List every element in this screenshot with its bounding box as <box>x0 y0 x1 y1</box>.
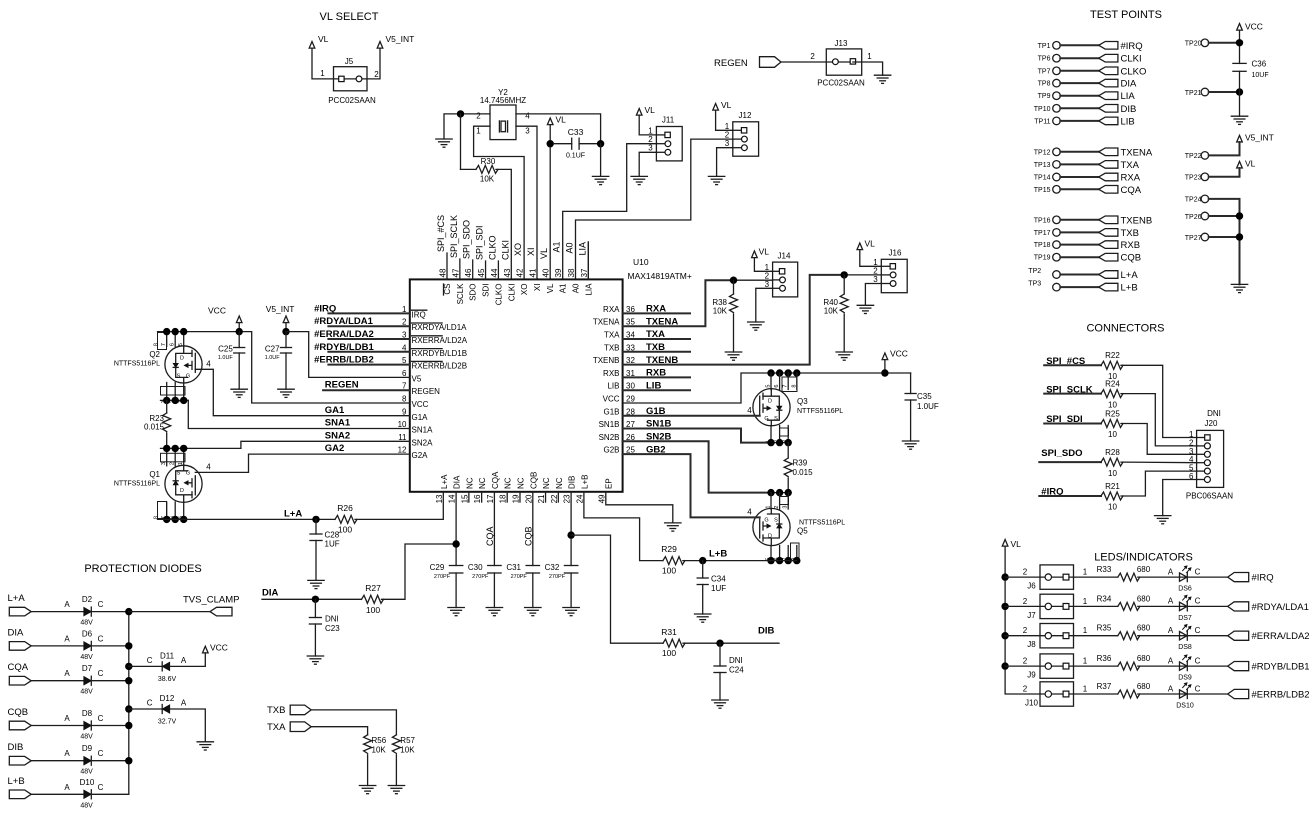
svg-text:11: 11 <box>398 433 407 442</box>
svg-text:680: 680 <box>1137 624 1151 633</box>
op-amp U10 MAX14819ATM+ body <box>410 279 623 491</box>
svg-text:A1: A1 <box>552 241 562 252</box>
resistor R39 <box>787 443 789 458</box>
svg-text:4: 4 <box>747 406 752 415</box>
power VL (J14) <box>752 251 758 258</box>
node Q5 top junctions <box>767 489 774 496</box>
Q2 drain tab pins 8,7,6,5 <box>158 333 167 350</box>
svg-text:CQB: CQB <box>523 526 533 546</box>
svg-text:SDI: SDI <box>482 284 491 297</box>
svg-text:G: G <box>186 471 190 477</box>
svg-text:3: 3 <box>648 144 653 153</box>
svg-text:C31: C31 <box>506 563 521 572</box>
svg-text:TVS_CLAMP: TVS_CLAMP <box>183 595 240 606</box>
svg-text:LIA: LIA <box>577 242 587 256</box>
power VL (C33) <box>547 118 553 125</box>
net TXB flag (TP17) <box>1099 229 1118 237</box>
svg-text:TP10: TP10 <box>1034 106 1051 113</box>
resistor R23 <box>166 400 168 413</box>
wire J12 pin2 to A0 pin38 <box>576 139 733 279</box>
svg-text:VCC: VCC <box>412 400 429 409</box>
svg-text:3: 3 <box>765 280 770 289</box>
svg-text:NC: NC <box>555 477 564 489</box>
svg-text:R36: R36 <box>1097 654 1112 663</box>
svg-text:39: 39 <box>554 268 563 277</box>
svg-text:TXENA: TXENA <box>593 318 620 327</box>
wire R25 to J20 pin3 <box>1121 424 1197 455</box>
resistor R40 <box>843 275 845 294</box>
svg-text:A0: A0 <box>565 242 575 253</box>
wire J6 to R33 <box>1074 576 1118 578</box>
node Q1 source junctions <box>163 445 170 452</box>
wire U10 pin 44 stub <box>497 261 499 279</box>
node pin14-C29 junction <box>452 540 459 547</box>
wire VL to J12 pin1 <box>716 110 733 130</box>
svg-text:S: S <box>774 518 778 524</box>
wire TP15 to flag <box>1060 188 1098 190</box>
svg-text:SN2B: SN2B <box>599 433 620 442</box>
wire C31 to ground <box>532 573 534 608</box>
wire U10 pin 47 stub <box>459 259 461 279</box>
wire pin4 stub <box>328 351 409 353</box>
svg-text:DIA: DIA <box>453 475 462 489</box>
wire U10 pin 46 stub <box>472 260 474 279</box>
svg-text:38.6V: 38.6V <box>158 676 177 683</box>
power VCC (C35) <box>882 353 888 360</box>
node TXENA-R38 <box>730 277 737 284</box>
svg-text:CQA: CQA <box>485 526 495 546</box>
svg-text:DNI: DNI <box>1207 409 1221 418</box>
svg-text:3: 3 <box>725 139 730 148</box>
wire TP1 to flag <box>1060 44 1098 46</box>
svg-text:TXA: TXA <box>604 331 620 340</box>
wire pin23 DIB node to R31 <box>571 535 663 643</box>
svg-text:TXENB: TXENB <box>593 356 620 365</box>
svg-text:TP11: TP11 <box>1034 118 1050 125</box>
svg-text:48V: 48V <box>80 620 93 627</box>
wire rail to J9 <box>1005 665 1040 667</box>
svg-text:SN1B: SN1B <box>599 420 620 429</box>
ground TP24/26/27 <box>1231 283 1247 285</box>
svg-text:VCC: VCC <box>1245 22 1263 32</box>
svg-text:DIB: DIB <box>1121 104 1137 115</box>
svg-text:680: 680 <box>1137 654 1151 663</box>
svg-text:A: A <box>64 783 70 792</box>
wire VL to pin40 VL <box>549 125 551 280</box>
svg-text:17: 17 <box>486 494 495 503</box>
resistor R57 <box>392 735 400 754</box>
svg-text:XI: XI <box>533 284 542 292</box>
ground C29 <box>448 607 464 609</box>
svg-text:J20: J20 <box>1205 419 1218 428</box>
node crystal-gnd junction <box>457 110 464 117</box>
wire R37 to DS10 <box>1138 693 1187 695</box>
svg-text:CQA: CQA <box>491 471 500 489</box>
svg-text:VL: VL <box>865 239 876 249</box>
svg-text:J12: J12 <box>739 111 752 120</box>
capacitor C32 <box>564 565 577 567</box>
wire U10 pin24 L+B to R29 <box>584 492 663 561</box>
node Q3 source junctions <box>767 439 774 446</box>
wire U10 pin23 DIB to C32 <box>570 492 572 566</box>
wire C28 to ground <box>315 541 317 581</box>
svg-text:C30: C30 <box>468 563 483 572</box>
svg-text:C: C <box>1195 597 1201 606</box>
power VL (TP23) <box>1237 161 1243 168</box>
svg-text:270PF: 270PF <box>511 574 528 580</box>
wire V5_INT to U10 pin6 <box>286 332 410 378</box>
svg-text:CQB: CQB <box>8 707 29 718</box>
svg-text:6: 6 <box>774 385 780 388</box>
svg-text:5: 5 <box>766 385 772 388</box>
svg-text:1UF: 1UF <box>711 584 726 593</box>
svg-text:TP23: TP23 <box>1185 175 1202 182</box>
svg-text:L+A: L+A <box>284 508 302 519</box>
svg-text:GA2: GA2 <box>325 443 345 454</box>
svg-text:C: C <box>98 634 104 643</box>
capacitor C30 <box>488 565 501 567</box>
svg-text:C36: C36 <box>1252 60 1267 69</box>
ground J12 <box>708 175 724 177</box>
wire VL to J14 pin1 <box>754 258 772 272</box>
wire U10 pin29 VCC to rail <box>623 373 911 403</box>
wire rail to J7 <box>1005 605 1040 607</box>
svg-text:A: A <box>64 634 70 643</box>
capacitor C31 <box>526 565 539 567</box>
wire L+A to D2 <box>31 611 84 613</box>
svg-text:CLKI: CLKI <box>507 284 516 302</box>
wire J14 pin3 to ground <box>756 288 773 322</box>
net #ERRB/LDB2 flag <box>1228 689 1249 698</box>
svg-text:#ERRA/LDA2: #ERRA/LDA2 <box>1252 631 1309 642</box>
svg-text:10K: 10K <box>400 746 415 755</box>
svg-text:REGEN: REGEN <box>412 387 441 396</box>
svg-text:J13: J13 <box>835 39 848 48</box>
svg-text:CQB: CQB <box>529 472 538 489</box>
svg-text:LIA: LIA <box>584 283 593 296</box>
svg-text:TP9: TP9 <box>1038 93 1051 100</box>
svg-text:L+A: L+A <box>8 593 26 604</box>
ground crystal left <box>436 138 452 140</box>
svg-text:C: C <box>98 749 104 758</box>
wire DS10 to flag <box>1187 693 1228 695</box>
resistor R38 <box>733 280 735 294</box>
svg-text:V5_INT: V5_INT <box>386 34 415 44</box>
svg-text:J7: J7 <box>1027 611 1036 620</box>
wire pin33 stub <box>623 351 690 353</box>
wire U10 pin 19 NC stub <box>519 492 521 502</box>
wire C35 to ground <box>910 400 912 441</box>
svg-text:10: 10 <box>1108 503 1117 512</box>
svg-text:TP21: TP21 <box>1185 90 1202 97</box>
svg-text:NTTFS5116PL: NTTFS5116PL <box>114 481 160 488</box>
node TP21 junction <box>1236 88 1243 95</box>
svg-text:IRQ: IRQ <box>412 310 426 319</box>
svg-text:270PF: 270PF <box>434 574 451 580</box>
svg-text:10: 10 <box>1108 430 1117 439</box>
svg-text:270PF: 270PF <box>549 574 566 580</box>
svg-text:R24: R24 <box>1105 380 1120 389</box>
svg-text:D: D <box>180 356 184 362</box>
svg-text:XI: XI <box>526 247 536 256</box>
svg-text:R39: R39 <box>793 459 808 468</box>
wire TP17 to flag <box>1060 231 1098 233</box>
svg-text:49: 49 <box>597 494 606 503</box>
node TP20 junction <box>1236 39 1243 46</box>
svg-text:Q1: Q1 <box>149 470 160 479</box>
wire D12 to ground <box>170 709 206 742</box>
svg-text:8: 8 <box>402 395 407 404</box>
svg-text:S: S <box>177 471 181 477</box>
svg-text:21: 21 <box>537 494 546 503</box>
svg-text:100: 100 <box>338 525 352 535</box>
wire GA2: Q1 gate to U10 pin12 <box>195 454 409 472</box>
svg-text:DIA: DIA <box>1121 79 1138 90</box>
svg-text:#IRQ: #IRQ <box>1121 41 1143 52</box>
svg-text:C25: C25 <box>218 345 233 354</box>
svg-text:6: 6 <box>402 369 407 378</box>
ground C31 <box>525 607 541 609</box>
svg-text:3: 3 <box>873 275 878 284</box>
wire U10 pin 22 NC stub <box>557 492 559 502</box>
svg-text:10: 10 <box>398 420 407 429</box>
svg-text:A: A <box>1168 597 1174 606</box>
svg-text:1: 1 <box>867 52 872 61</box>
svg-text:L+A: L+A <box>1121 270 1139 281</box>
svg-text:#IRQ: #IRQ <box>1252 573 1274 584</box>
svg-text:L+B: L+B <box>8 776 25 787</box>
svg-text:20: 20 <box>524 494 533 503</box>
svg-text:R29: R29 <box>661 544 677 554</box>
svg-text:1: 1 <box>320 69 325 78</box>
net #RDYA/LDA1 flag <box>1228 602 1249 611</box>
wire R34 to DS7 <box>1138 605 1187 607</box>
node VL-C33 junction <box>547 140 554 147</box>
svg-text:37: 37 <box>580 268 589 277</box>
wire R29 to Q5 drain rail <box>683 560 797 562</box>
ground J14 <box>748 321 764 323</box>
wire U10 pin17 CQA to C30 <box>493 492 495 566</box>
svg-text:680: 680 <box>1137 565 1151 574</box>
svg-text:SPI_SCLK: SPI_SCLK <box>449 215 459 258</box>
svg-text:VL: VL <box>1011 539 1022 549</box>
svg-text:6: 6 <box>170 343 176 346</box>
svg-text:R34: R34 <box>1097 594 1112 603</box>
svg-text:CLKI: CLKI <box>1121 54 1142 65</box>
svg-text:TP18: TP18 <box>1034 242 1051 249</box>
wire R28 to J20 pin4 <box>1121 461 1197 464</box>
wire #IRQ to R21 <box>1039 495 1101 497</box>
svg-text:C23: C23 <box>325 624 340 633</box>
svg-text:100: 100 <box>662 648 676 658</box>
svg-text:0.1UF: 0.1UF <box>566 153 585 160</box>
svg-text:4: 4 <box>525 112 530 121</box>
power V5_INT (J5) <box>377 42 383 49</box>
wire pin5 stub <box>328 364 409 366</box>
svg-text:RXERRA/LD2A: RXERRA/LD2A <box>412 336 468 345</box>
svg-text:2: 2 <box>810 52 815 61</box>
capacitor C28 <box>315 519 317 534</box>
svg-text:1: 1 <box>476 127 481 136</box>
wire U10 pin 16 NC stub <box>481 492 483 502</box>
wire SNA2 to U10 pin11 <box>241 441 410 448</box>
wire U10 pin 45 stub <box>485 261 487 279</box>
svg-text:1: 1 <box>1083 657 1088 666</box>
svg-text:LIA: LIA <box>1121 91 1136 102</box>
wire TP24 down <box>1209 199 1240 285</box>
net #IRQ flag (TP1) <box>1099 42 1118 50</box>
wire DS6 to flag <box>1187 576 1228 578</box>
svg-text:DS8: DS8 <box>1178 644 1192 651</box>
svg-text:DIA: DIA <box>8 627 25 638</box>
wire TP2 to flag <box>1060 274 1098 276</box>
svg-text:NC: NC <box>516 477 525 489</box>
power VL (J11) <box>636 109 642 116</box>
capacitor C34 <box>702 561 704 578</box>
svg-text:SN2A: SN2A <box>412 438 434 447</box>
svg-text:13: 13 <box>435 494 444 503</box>
wire VCC stem <box>238 323 240 332</box>
svg-text:DIA: DIA <box>262 588 279 599</box>
svg-text:14.7456MHZ: 14.7456MHZ <box>480 96 526 105</box>
node VCC-C35 <box>881 369 888 376</box>
svg-text:DS10: DS10 <box>1176 703 1194 710</box>
resistor R56 <box>364 735 372 754</box>
net CLKI flag (TP6) <box>1099 54 1118 62</box>
power VL (J5) <box>309 42 315 49</box>
svg-text:J16: J16 <box>889 249 902 258</box>
ground TP21 <box>1231 115 1247 117</box>
wire VCC rail to U10 pin8 <box>158 332 410 403</box>
node C33 right junction <box>597 140 604 147</box>
Q1 drain tab pins 8,7,6,5 <box>158 502 167 519</box>
power VL (J12) <box>713 104 719 111</box>
ground C27 <box>278 388 294 390</box>
node L+B junction <box>699 557 706 564</box>
wire DS8 to flag <box>1187 635 1228 637</box>
wire TP16 to flag <box>1060 219 1098 221</box>
wire TXENB to J16 pin2 <box>623 275 845 365</box>
Q3 source tab pins 1,2,3 <box>780 428 789 436</box>
svg-text:RXERRB/LD2B: RXERRB/LD2B <box>412 362 468 371</box>
svg-text:C: C <box>98 600 104 609</box>
svg-text:VL: VL <box>721 100 732 110</box>
svg-text:D2: D2 <box>82 595 93 604</box>
wire GB2 to Q5 gate <box>623 454 760 517</box>
node Q3 drain junctions <box>767 369 774 376</box>
wire DIA <box>262 598 362 600</box>
svg-text:XO: XO <box>513 243 523 256</box>
wire TP21 to node <box>1209 91 1240 93</box>
svg-text:7: 7 <box>161 343 167 346</box>
svg-text:TP12: TP12 <box>1034 149 1051 156</box>
svg-text:C: C <box>98 714 104 723</box>
ground C30 <box>486 607 502 609</box>
svg-text:D7: D7 <box>82 664 93 673</box>
svg-text:A: A <box>64 669 70 678</box>
power VCC (D11) <box>203 646 209 653</box>
svg-text:J9: J9 <box>1027 671 1036 680</box>
svg-text:J14: J14 <box>778 252 791 261</box>
wire SNA1 to U10 pin10 <box>188 400 409 428</box>
svg-text:C34: C34 <box>711 575 726 584</box>
wire TXB to R57 <box>311 710 396 735</box>
wire bus to TVS_CLAMP flag <box>129 611 210 613</box>
wire J8 to R35 <box>1074 635 1118 637</box>
svg-text:1: 1 <box>1083 568 1088 577</box>
svg-text:22: 22 <box>550 494 559 503</box>
wire SPI_SDI to R25 <box>1044 423 1101 425</box>
svg-text:CLKI: CLKI <box>500 240 510 260</box>
wire pin2 stub <box>328 325 409 327</box>
svg-text:A: A <box>181 699 187 708</box>
net #RDYB/LDB1 flag <box>1228 662 1249 671</box>
svg-text:47: 47 <box>451 268 460 277</box>
wire VCC stem <box>884 360 886 373</box>
svg-text:18: 18 <box>499 494 508 503</box>
net #IRQ flag <box>1228 573 1249 582</box>
svg-text:D12: D12 <box>160 694 175 703</box>
svg-text:TXB: TXB <box>267 705 285 716</box>
svg-text:R27: R27 <box>365 583 381 593</box>
svg-text:CLKO: CLKO <box>487 235 497 260</box>
wire D6 to bus <box>91 645 129 647</box>
wire G1B to Q3 gate <box>623 415 760 417</box>
svg-text:VL: VL <box>546 283 555 293</box>
svg-text:TXA: TXA <box>267 722 286 733</box>
wire bus to D11 <box>129 665 162 667</box>
net LIB flag (TP11) <box>1099 117 1118 125</box>
net RXA flag (TP14) <box>1099 173 1118 181</box>
wire J7 to R34 <box>1074 605 1118 607</box>
wire pin7 stub <box>323 389 410 391</box>
svg-text:C24: C24 <box>729 666 744 675</box>
wire TP14 to flag <box>1060 176 1098 178</box>
wire rail to J8 <box>1005 635 1040 637</box>
wire TP10 to flag <box>1060 107 1098 109</box>
svg-text:1.0UF: 1.0UF <box>218 355 234 361</box>
wire DIB to D9 <box>31 760 84 762</box>
wire R57 to ground <box>395 755 397 786</box>
svg-text:MAX14819ATM+: MAX14819ATM+ <box>628 271 692 281</box>
wire CQA to D7 <box>31 680 84 682</box>
svg-text:8: 8 <box>153 343 159 346</box>
svg-text:VL: VL <box>539 248 549 259</box>
svg-text:A0: A0 <box>572 283 581 293</box>
svg-text:VCC: VCC <box>603 395 620 404</box>
svg-text:G2A: G2A <box>412 451 429 460</box>
svg-text:C32: C32 <box>545 563 560 572</box>
svg-text:C: C <box>1195 567 1201 576</box>
ground C25 <box>231 388 247 390</box>
wire VL to J11 pin1 <box>639 115 656 135</box>
svg-text:A: A <box>1168 656 1174 665</box>
ground J16 <box>857 304 873 306</box>
svg-text:10K: 10K <box>824 307 839 316</box>
svg-text:GA1: GA1 <box>325 405 345 416</box>
svg-text:DIB: DIB <box>758 626 775 637</box>
svg-text:RXRDYA/LD1A: RXRDYA/LD1A <box>412 323 468 332</box>
net TXA flag (TP13) <box>1099 161 1118 169</box>
wire TXENA to J14 pin2 <box>623 280 734 326</box>
ground C28 <box>308 579 324 581</box>
svg-text:16: 16 <box>473 494 482 503</box>
svg-text:G1B: G1B <box>603 407 619 416</box>
svg-text:1.0UF: 1.0UF <box>265 355 281 361</box>
svg-text:4: 4 <box>206 360 211 369</box>
wire J10 to R37 <box>1074 693 1118 695</box>
wire TP7 to flag <box>1060 70 1098 72</box>
